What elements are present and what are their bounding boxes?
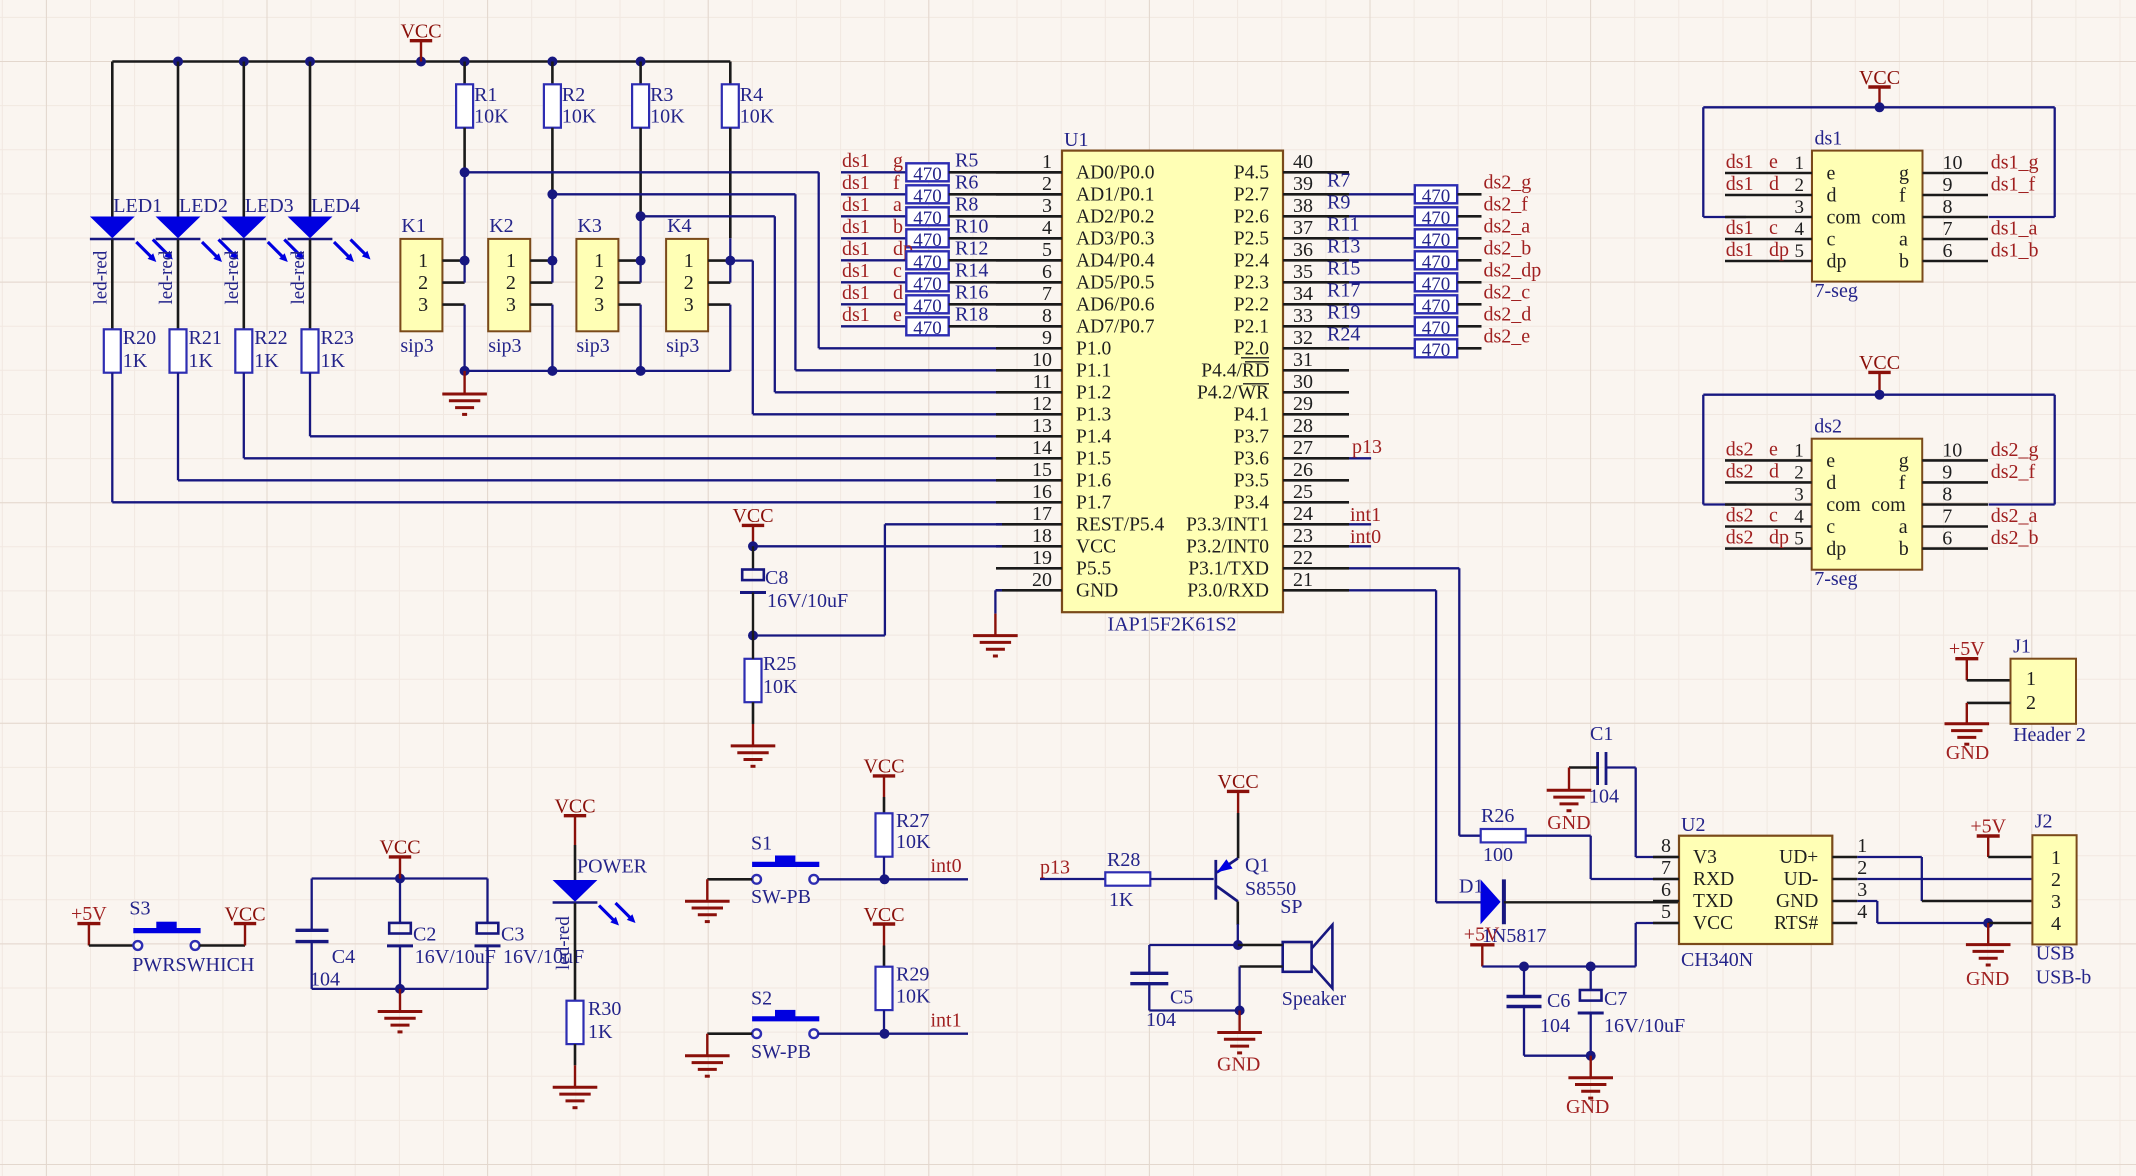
svg-text:1: 1 (594, 250, 604, 272)
ground S1 (685, 879, 730, 921)
svg-text:2: 2 (684, 272, 694, 294)
ground K bus (442, 371, 487, 415)
svg-text:13: 13 (1032, 415, 1052, 437)
wire R4 to K4 (729, 128, 732, 261)
resistor R24 470 (1415, 339, 1457, 361)
svg-text:7-seg: 7-seg (1814, 568, 1857, 590)
svg-text:R6: R6 (955, 171, 978, 193)
svg-text:3: 3 (684, 294, 694, 316)
svg-text:470: 470 (1422, 186, 1451, 207)
svg-text:S2: S2 (751, 988, 772, 1010)
pin ds2.7 (1922, 505, 2037, 528)
pin U1.7 AD6/P0.6 (996, 283, 1155, 316)
pin U2.4 RTS# (1774, 901, 1867, 934)
svg-text:f: f (893, 172, 900, 194)
resistor R30 (567, 998, 622, 1044)
wire R27 top (883, 797, 886, 813)
wire R6 to U1 (949, 193, 1062, 196)
wire U1 to R17 (1327, 279, 1415, 304)
svg-text:104: 104 (1146, 1009, 1176, 1031)
svg-text:ds1: ds1 (1726, 151, 1754, 173)
svg-text:f: f (1899, 185, 1906, 207)
wire R5 to U1 (949, 171, 1062, 174)
svg-text:ds1: ds1 (1726, 239, 1754, 261)
svg-text:38: 38 (1293, 195, 1313, 217)
svg-text:C4: C4 (332, 946, 355, 968)
wire K1 pin2 stub (442, 261, 464, 283)
svg-text:J1: J1 (2013, 636, 2031, 658)
svg-text:P1.0: P1.0 (1076, 339, 1111, 360)
pin ds1.5 (1725, 239, 1812, 262)
wire cap rail top (312, 874, 488, 884)
svg-text:6: 6 (1661, 879, 1671, 901)
svg-text:ds2_f: ds2_f (1484, 193, 1529, 215)
wire K3 pin2 stub (618, 261, 640, 283)
svg-text:LED1: LED1 (113, 195, 162, 217)
svg-text:1K: 1K (123, 350, 148, 372)
svg-text:R4: R4 (740, 84, 763, 106)
svg-text:b: b (1899, 538, 1909, 560)
svg-text:SW-PB: SW-PB (751, 1041, 811, 1063)
svg-text:ds1: ds1 (1815, 128, 1843, 150)
resistor R28 (1105, 849, 1150, 911)
svg-text:ds1_b: ds1_b (1991, 240, 2039, 262)
svg-text:AD4/P0.4: AD4/P0.4 (1076, 251, 1155, 272)
svg-text:D1: D1 (1459, 876, 1483, 898)
svg-text:14: 14 (1032, 437, 1052, 459)
wire R27 bottom (880, 857, 890, 885)
wire C1 right (1606, 768, 1679, 858)
wire LED3 anode (243, 62, 246, 217)
resistor R22 (235, 327, 287, 373)
pin U1.8 AD7/P0.7 (996, 305, 1155, 338)
svg-text:10: 10 (1943, 152, 1963, 174)
svg-text:K1: K1 (401, 215, 425, 237)
wire K3 pin3 stub (618, 305, 640, 371)
svg-text:GND: GND (1217, 1054, 1260, 1076)
wire K3 pin1 stub (618, 256, 645, 266)
IC U1 IAP15F2K61S2 (1062, 129, 1283, 636)
svg-text:33: 33 (1293, 305, 1313, 327)
svg-text:7: 7 (1042, 283, 1052, 305)
svg-text:2: 2 (1795, 175, 1805, 196)
wire LED2 anode (177, 62, 180, 217)
svg-text:16V/10uF: 16V/10uF (767, 590, 848, 612)
svg-text:2: 2 (594, 272, 604, 294)
svg-text:3: 3 (506, 294, 516, 316)
wire K4 pin2 stub (708, 261, 730, 283)
pin ds2.1 (1725, 438, 1812, 461)
svg-text:9: 9 (1042, 327, 1052, 349)
pin U1.21 P3.0/RXD (1187, 569, 1349, 602)
pin ds2.8 (1922, 484, 1988, 506)
svg-text:R17: R17 (1327, 279, 1360, 301)
wire ds1_a label wire (841, 194, 906, 217)
display ds2 7-seg (1812, 416, 1923, 591)
svg-text:e: e (1769, 438, 1778, 460)
svg-text:com: com (1871, 494, 1906, 516)
wire speaker top (1238, 944, 1283, 947)
wire P1.1 route (552, 194, 1002, 370)
pin U1.6 AD5/P0.5 (996, 261, 1155, 294)
svg-text:P4.5: P4.5 (1234, 163, 1269, 184)
svg-text:ds1: ds1 (1726, 173, 1754, 195)
wire K4 pin3 stub (708, 305, 730, 371)
svg-text:2: 2 (2026, 692, 2036, 714)
power VCC C8 (732, 505, 773, 546)
svg-text:c: c (1769, 217, 1778, 239)
svg-text:ds1: ds1 (842, 172, 870, 194)
pin U1.11 P1.2 (996, 371, 1111, 404)
wire J1 pin2 (1967, 702, 2011, 705)
svg-text:4: 4 (2051, 913, 2061, 935)
svg-text:f: f (1899, 472, 1906, 494)
wire P1.3 route (730, 261, 1002, 415)
ground J1 (1945, 703, 1990, 764)
svg-text:K4: K4 (667, 215, 691, 237)
svg-text:GND: GND (1966, 968, 2009, 990)
svg-text:R8: R8 (955, 193, 978, 215)
svg-text:1: 1 (2026, 668, 2036, 690)
display ds1 7-seg (1812, 128, 1923, 303)
connector J1 (2011, 636, 2086, 747)
svg-text:4: 4 (1857, 901, 1867, 923)
wire R18 to U1 (949, 325, 1062, 328)
connector K1 (400, 215, 442, 357)
svg-text:AD6/P0.6: AD6/P0.6 (1076, 295, 1155, 316)
capacitor C7 (1578, 967, 1685, 1056)
wire U1 to R9 (1327, 191, 1415, 216)
svg-text:P3.4: P3.4 (1234, 493, 1269, 514)
diode D1 1N5817 (1459, 876, 1546, 947)
svg-text:IAP15F2K61S2: IAP15F2K61S2 (1108, 614, 1237, 636)
svg-text:470: 470 (1422, 230, 1451, 251)
svg-text:c: c (1826, 516, 1835, 538)
svg-text:7: 7 (1942, 506, 1952, 528)
wire LED1 anode (111, 62, 114, 217)
svg-text:34: 34 (1293, 283, 1313, 305)
wire U1 GND (995, 590, 1002, 613)
svg-text:ds2: ds2 (1726, 460, 1754, 482)
pin U1.14 P1.5 (996, 437, 1111, 470)
svg-text:1: 1 (1795, 153, 1805, 174)
pin U1.16 P1.7 (996, 481, 1111, 514)
resistor R18 470 (906, 303, 988, 339)
svg-text:470: 470 (913, 186, 942, 207)
svg-text:com: com (1872, 207, 1907, 229)
power VCC top (400, 21, 441, 62)
svg-text:P3.7: P3.7 (1234, 427, 1269, 448)
svg-text:104: 104 (1589, 785, 1619, 807)
svg-text:+5V: +5V (1970, 816, 2006, 838)
svg-text:3: 3 (2051, 891, 2061, 913)
wire U2 GND net (1857, 901, 2032, 928)
svg-text:ds2: ds2 (1726, 505, 1754, 527)
pin U1.1 AD0/P0.0 (996, 151, 1155, 184)
svg-text:C1: C1 (1590, 723, 1613, 745)
svg-text:R11: R11 (1327, 213, 1360, 235)
svg-text:c: c (1769, 505, 1778, 527)
svg-text:P1.3: P1.3 (1076, 405, 1111, 426)
pin U1.20 GND (996, 569, 1118, 602)
svg-text:7: 7 (1661, 857, 1671, 879)
ground S2 (685, 1034, 730, 1077)
svg-text:UD+: UD+ (1779, 847, 1818, 868)
resistor R11 470 (1415, 229, 1457, 251)
svg-text:R25: R25 (763, 653, 796, 675)
svg-text:P2.3: P2.3 (1234, 273, 1269, 294)
svg-text:TXD: TXD (1693, 891, 1733, 912)
svg-text:R19: R19 (1327, 301, 1360, 323)
pin U1.12 P1.3 (996, 393, 1111, 426)
svg-text:R28: R28 (1107, 849, 1140, 871)
svg-text:g: g (1899, 163, 1909, 185)
svg-text:R16: R16 (955, 281, 988, 303)
svg-text:com: com (1826, 494, 1861, 516)
svg-text:GND: GND (1566, 1096, 1609, 1118)
svg-text:dp: dp (1769, 527, 1789, 549)
pin ds2.2 (1725, 460, 1812, 483)
svg-text:1K: 1K (588, 1021, 613, 1043)
svg-text:S3: S3 (129, 898, 150, 920)
pin U1.25 P3.4 (1234, 481, 1349, 514)
svg-text:R7: R7 (1327, 169, 1350, 191)
switch S3 PWRSWHICH (129, 898, 254, 976)
svg-text:ds2: ds2 (1726, 527, 1754, 549)
pin U1.15 P1.6 (996, 459, 1111, 492)
power VCC ds1 (1859, 67, 1900, 113)
svg-text:LED4: LED4 (311, 195, 360, 217)
wire R3 to K3 (639, 128, 642, 261)
svg-text:R5: R5 (955, 149, 978, 171)
pin U1.39 P2.7 (1234, 173, 1349, 206)
ground R25 (731, 702, 776, 766)
svg-text:R21: R21 (189, 327, 222, 349)
svg-text:R15: R15 (1327, 257, 1360, 279)
svg-text:R2: R2 (562, 84, 585, 106)
wire R1 to K1 (463, 128, 466, 261)
wire R28 to Q1 (1150, 878, 1213, 880)
svg-text:2: 2 (1857, 857, 1867, 879)
wire LED3 cathode (243, 240, 246, 330)
pin ds2.3 (1725, 485, 1812, 506)
svg-text:K2: K2 (489, 215, 513, 237)
svg-text:LED2: LED2 (179, 195, 228, 217)
IC U2 CH340N (1679, 814, 1832, 971)
resistor R16 470 (906, 281, 988, 317)
svg-text:R27: R27 (896, 810, 929, 832)
wire ds1_dp label wire (841, 238, 913, 260)
svg-text:8: 8 (1942, 484, 1952, 506)
svg-text:15: 15 (1032, 459, 1052, 481)
svg-text:40: 40 (1293, 151, 1313, 173)
svg-text:1K: 1K (189, 350, 214, 372)
pin U1.5 AD4/P0.4 (996, 239, 1155, 272)
pin U1.29 P4.1 (1234, 393, 1349, 426)
svg-text:led-red: led-red (553, 916, 574, 970)
svg-text:P3.2/INT0: P3.2/INT0 (1186, 537, 1269, 558)
svg-text:10K: 10K (474, 106, 509, 128)
ground U1 (973, 614, 1018, 656)
wire ds2_e label wire (1458, 325, 1531, 348)
pin U2.6 TXD (1653, 879, 1733, 912)
resistor R6 470 (906, 171, 978, 207)
pin ds1.7 (1923, 218, 2038, 241)
wire S2 left (707, 1032, 752, 1035)
svg-text:3: 3 (1794, 485, 1804, 506)
svg-text:C6: C6 (1547, 990, 1570, 1012)
svg-text:1: 1 (1794, 440, 1804, 461)
svg-text:1: 1 (506, 250, 516, 272)
svg-text:31: 31 (1293, 349, 1313, 371)
wire P1.4 net (310, 373, 1002, 437)
svg-text:d: d (1827, 185, 1837, 207)
svg-text:GND: GND (1776, 891, 1818, 912)
node P1.1 junction (547, 189, 557, 199)
wire int0 S1 (818, 855, 968, 879)
svg-text:P3.3/INT1: P3.3/INT1 (1186, 515, 1269, 536)
svg-text:AD1/P0.1: AD1/P0.1 (1076, 185, 1155, 206)
connector J2 USB (2032, 810, 2091, 988)
wire C5 bottom (1149, 984, 1244, 1016)
wire K1 pin3 stub (442, 305, 464, 371)
resistor R21 (170, 327, 222, 373)
wire U1 to R13 (1327, 235, 1415, 260)
wire ds1_e label wire (841, 304, 906, 327)
svg-text:GND: GND (1076, 581, 1118, 602)
svg-text:3: 3 (1042, 195, 1052, 217)
resistor R5 470 (906, 149, 978, 185)
svg-text:a: a (893, 194, 902, 216)
connector K3 (576, 215, 618, 357)
svg-text:4: 4 (1794, 507, 1804, 528)
wire ds1_c label wire (841, 260, 906, 283)
svg-text:R22: R22 (254, 327, 287, 349)
svg-text:R9: R9 (1327, 191, 1350, 213)
wire K2 pin2 stub (530, 261, 552, 283)
svg-text:R29: R29 (896, 964, 929, 986)
wire Q1 emitter supply (1237, 813, 1240, 858)
svg-text:470: 470 (913, 296, 942, 317)
resistor R2 (544, 84, 597, 128)
pin U1.3 AD2/P0.2 (996, 195, 1155, 228)
wire K ground bus (460, 366, 731, 376)
capacitor C1 (1589, 723, 1619, 807)
svg-text:UD-: UD- (1784, 869, 1819, 890)
svg-text:led-red: led-red (90, 250, 111, 304)
svg-text:ds2: ds2 (1814, 416, 1842, 438)
svg-text:ds1: ds1 (842, 216, 870, 238)
svg-text:V3: V3 (1693, 847, 1717, 868)
svg-text:C8: C8 (765, 567, 788, 589)
svg-text:ds2: ds2 (1726, 438, 1754, 460)
svg-text:p13: p13 (1040, 857, 1070, 879)
wire P1.5 net (244, 373, 1002, 459)
wire Q1 collector (1233, 901, 1243, 950)
wire R2 to K2 (551, 128, 554, 261)
svg-text:104: 104 (310, 968, 340, 990)
svg-text:P3.5: P3.5 (1234, 471, 1269, 492)
wire ds2_g label wire (1458, 171, 1532, 194)
svg-text:1: 1 (684, 250, 694, 272)
svg-text:ds1_f: ds1_f (1991, 174, 2036, 196)
wire U1 to R19 (1327, 301, 1415, 326)
pin U1.17 REST/P5.4 (996, 503, 1165, 536)
pin U2.1 UD+ (1779, 835, 1867, 868)
wire LED4 anode (309, 62, 312, 217)
switch S1 (751, 833, 819, 909)
wire J1 pin1 (1967, 679, 2011, 682)
svg-text:R23: R23 (321, 327, 354, 349)
svg-text:P1.6: P1.6 (1076, 471, 1111, 492)
pin U1.9 P1.0 (996, 327, 1111, 360)
wire R12 to U1 (949, 259, 1062, 262)
wire R26 to U2 (1526, 836, 1679, 879)
wire ds1_f label wire (841, 172, 906, 195)
svg-text:AD7/P0.7: AD7/P0.7 (1076, 317, 1155, 338)
svg-text:P2.0: P2.0 (1234, 339, 1269, 360)
power VCC caps (379, 837, 420, 879)
svg-text:led-red: led-red (288, 250, 309, 304)
power +5V J2 (1970, 816, 2006, 858)
svg-text:30: 30 (1293, 371, 1313, 393)
svg-text:R1: R1 (474, 84, 497, 106)
wire K2 pin1 stub (530, 256, 557, 266)
svg-text:REST/P5.4: REST/P5.4 (1076, 515, 1165, 536)
svg-text:4: 4 (1042, 217, 1052, 239)
pin U1.4 AD3/P0.3 (996, 217, 1155, 250)
wire UD- net (1857, 878, 2032, 880)
svg-text:P1.2: P1.2 (1076, 383, 1111, 404)
wire U1 to R11 (1327, 213, 1415, 238)
svg-text:9: 9 (1942, 461, 1952, 483)
wire ds1_b label wire (841, 216, 906, 239)
svg-text:PWRSWHICH: PWRSWHICH (132, 954, 254, 976)
wire TXD net (1349, 568, 1481, 835)
svg-text:c: c (893, 260, 902, 282)
svg-text:dp: dp (1826, 538, 1846, 560)
svg-text:ds2_a: ds2_a (1991, 505, 2038, 527)
pin U1.27 P3.6 (1234, 437, 1349, 470)
resistor R7 470 (1415, 185, 1457, 207)
pin U1.26 P3.5 (1234, 459, 1349, 492)
svg-text:10K: 10K (896, 985, 931, 1007)
svg-text:b: b (893, 216, 903, 238)
svg-text:P1.1: P1.1 (1076, 361, 1111, 382)
svg-text:27: 27 (1293, 437, 1313, 459)
svg-text:Q1: Q1 (1245, 855, 1269, 877)
resistor R29 (876, 964, 932, 1010)
svg-text:P4.2/WR: P4.2/WR (1197, 383, 1269, 404)
power VCC S3 (224, 903, 265, 945)
svg-text:ds2_a: ds2_a (1484, 215, 1531, 237)
capacitor C8 (740, 546, 848, 635)
svg-text:R24: R24 (1327, 323, 1360, 345)
ground C1 (1547, 768, 1592, 835)
pin U2.5 VCC (1653, 901, 1733, 934)
svg-text:C3: C3 (501, 924, 524, 946)
svg-text:d: d (893, 282, 903, 304)
svg-text:C2: C2 (413, 924, 436, 946)
wire C1 left (1569, 766, 1598, 768)
power VCC R29 (863, 904, 904, 946)
svg-text:int1: int1 (1350, 504, 1381, 526)
pin ds1.2 (1725, 173, 1812, 196)
svg-text:3: 3 (1795, 197, 1805, 218)
svg-text:10: 10 (1032, 349, 1052, 371)
svg-text:R30: R30 (588, 998, 621, 1020)
svg-text:R10: R10 (955, 215, 988, 237)
